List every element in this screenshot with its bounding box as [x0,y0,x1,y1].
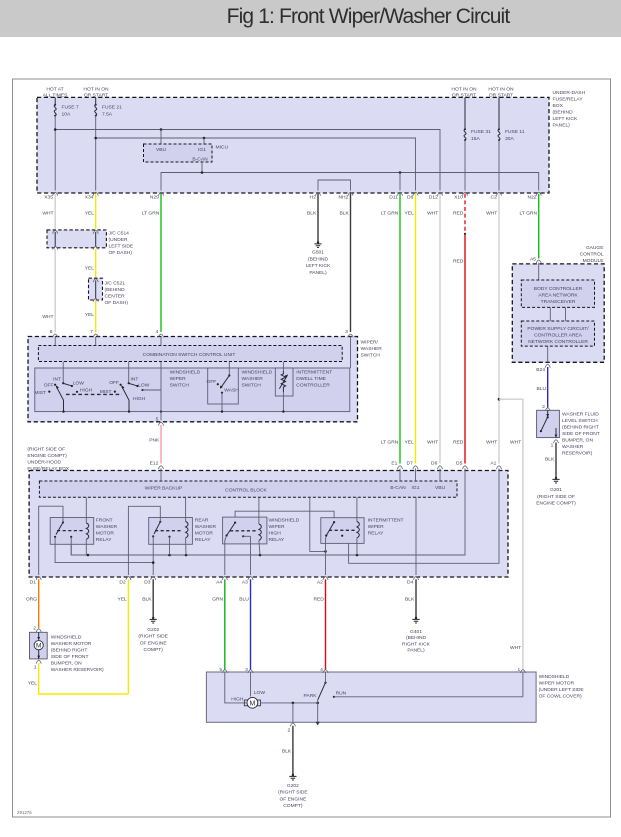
svg-text:BLK: BLK [545,457,555,463]
svg-text:D6: D6 [431,461,438,467]
windshield washer motor [30,632,105,673]
svg-text:FUSE/RELAY: FUSE/RELAY [553,97,584,103]
svg-text:OR START: OR START [489,93,513,99]
svg-text:CONTROL: CONTROL [580,252,604,258]
svg-text:BUMPER, ON: BUMPER, ON [51,660,82,666]
svg-text:7.5A: 7.5A [102,112,113,118]
svg-text:WHT: WHT [42,211,53,217]
pin D5 [456,461,468,469]
wire fuse 31 output to X10 [464,140,466,190]
pin 1 washer fluid level switch [551,440,559,449]
svg-text:RELAY: RELAY [96,537,112,543]
svg-text:30A: 30A [505,136,514,142]
wire BLK D3 to G202 [142,579,153,617]
svg-text:D7: D7 [407,461,414,467]
node junction fuse21 bus [94,137,97,140]
svg-text:D6: D6 [407,195,414,201]
wire WASH contact to bus [221,393,223,412]
svg-text:YEL: YEL [405,211,415,217]
svg-text:COMBINATION SWITCH CONTROL UNI: COMBINATION SWITCH CONTROL UNIT [143,352,236,358]
pin C2 [491,192,502,200]
switch block box [35,368,350,412]
pin D6 [431,461,443,469]
wire transceiver to controller links [550,307,565,321]
wire GRN A4 to wiper motor pin 5 [212,579,225,670]
svg-text:IG1: IG1 [412,485,420,491]
front washer motor relay [50,518,117,545]
svg-text:COMPT): COMPT) [283,803,303,809]
ground G501 [306,241,331,276]
wire control block to A2 branch [310,497,326,551]
svg-text:X10: X10 [454,195,463,201]
pin D4 [407,577,419,586]
windshield washer switch box [208,368,239,404]
MICU [144,144,229,163]
svg-text:M: M [249,701,255,708]
power supply circuit/controller area network controller [521,321,594,346]
wire pin 4 feed [160,337,162,346]
pin 3 wiper motor [245,667,253,673]
wiper switch wafer 2 [100,377,150,412]
svg-text:WASHER RESERVOIR): WASHER RESERVOIR) [51,667,104,673]
pin B24 [536,364,550,373]
svg-text:MOTOR: MOTOR [96,531,115,537]
svg-text:WHT: WHT [486,440,497,446]
pin A5 [530,257,541,264]
pin A1 [490,461,501,469]
wire park contact riser [317,700,319,703]
svg-text:HOT IN ON: HOT IN ON [83,87,109,93]
svg-text:G501: G501 [312,250,324,256]
wire control block to front relay coil [85,497,87,523]
pin 1 washer motor [34,660,42,670]
svg-text:RUN: RUN [336,691,347,697]
svg-text:OF DASH): OF DASH) [109,250,133,256]
svg-text:HIGH: HIGH [231,696,244,702]
svg-text:(UNDER: (UNDER [109,237,128,243]
wire control unit to washer switch [228,362,230,376]
svg-text:ORG: ORG [26,597,37,603]
wire BLK D4 to G401 [405,579,416,617]
svg-text:2: 2 [542,404,545,410]
svg-text:1: 1 [517,667,520,673]
svg-text:WHT: WHT [427,211,438,217]
svg-text:PARK: PARK [304,693,318,699]
svg-text:B-CAN: B-CAN [192,157,208,163]
intermittent dwell time controller box [275,368,293,396]
wire E1 into control block [399,469,401,482]
ground G201 [536,477,576,507]
svg-text:A2: A2 [317,580,323,586]
pin A3 [242,577,253,586]
pin D2 [119,577,131,586]
svg-text:HOT IN ON: HOT IN ON [488,87,514,93]
node junction int coil bus [356,554,359,557]
pin A2 [317,577,328,586]
node junction fuse7 bus [54,128,57,131]
ground G202 left [138,617,168,653]
svg-text:HOT AT: HOT AT [46,87,63,93]
svg-text:N22: N22 [528,195,537,201]
under-hood fuse/relay box [27,447,508,578]
wire battery bus to D12 [55,130,440,191]
wire LT GRN N22 to A5 [520,194,539,259]
pin NH2 [339,192,354,200]
svg-text:BLK: BLK [405,597,415,603]
svg-text:X35: X35 [44,195,53,201]
wire high coil to bus [259,540,260,555]
svg-text:WHT: WHT [427,440,438,446]
svg-text:WINDSHIELD: WINDSHIELD [539,674,570,680]
svg-text:M: M [36,643,41,650]
svg-text:WIPER/: WIPER/ [361,340,379,346]
svg-text:HOT IN ON: HOT IN ON [451,87,477,93]
svg-text:COMPT): COMPT) [144,647,164,653]
pin 2 washer motor [33,626,41,633]
svg-text:WASHER: WASHER [195,524,217,530]
svg-text:(BEHIND: (BEHIND [105,287,126,293]
svg-text:D3: D3 [144,580,151,586]
svg-text:RED: RED [313,597,324,603]
wire D11 drop [399,173,401,191]
wire int coil to bus [356,538,358,555]
svg-text:RELAY: RELAY [368,531,384,537]
wire pin 5 to motor HIGH brush [225,672,247,703]
wire BLK NH2 to pin 3 [340,194,351,332]
svg-text:WASHER FLUID: WASHER FLUID [562,412,599,418]
park switch arm [304,672,327,700]
fuse FUSE 11 30A [498,97,525,142]
svg-text:UNDER-HOOD: UNDER-HOOD [27,460,61,466]
svg-text:E12: E12 [150,461,159,467]
wiper/washer switch assembly box [28,337,382,422]
wire D6 into control block [439,469,441,482]
svg-text:FRONT: FRONT [96,518,113,524]
svg-text:WASHER: WASHER [96,524,118,530]
svg-text:A5: A5 [530,257,536,263]
svg-text:BODY CONTROLLER: BODY CONTROLLER [534,286,583,292]
svg-text:SWITCH: SWITCH [242,383,262,389]
svg-text:WINDSHIELD: WINDSHIELD [269,518,300,524]
wire wafer2 HIGH contact to pin 5 line [143,389,162,391]
svg-text:OF DASH): OF DASH) [105,300,129,306]
svg-text:G401: G401 [410,629,422,635]
junction connector J/C C514 [47,230,134,256]
svg-text:N29: N29 [150,195,159,201]
pin X35 [44,192,58,200]
node junctions on switch bus [62,410,284,412]
svg-text:LT GRN: LT GRN [520,211,538,217]
svg-text:CONTROLLER AREA: CONTROLLER AREA [534,333,583,339]
node junction front coil bus [87,554,90,557]
wire controller to B24 [547,346,549,362]
wire front top contact to D1 [39,506,63,575]
svg-text:SIDE OF FRONT: SIDE OF FRONT [51,654,89,660]
svg-text:D5: D5 [456,461,463,467]
windshield washer switch [207,374,240,393]
wire pin 4 through to pin 5 [160,362,162,421]
svg-text:OFF: OFF [44,383,54,389]
svg-text:2: 2 [33,626,36,632]
wire ORG D1 to washer motor [26,579,39,628]
rear washer motor relay [149,518,217,545]
svg-text:INT: INT [53,377,61,383]
node junction rear NO bus [168,554,171,557]
wire BLK H2 to G501 [307,194,318,242]
gauge control module [512,245,604,362]
fuse FUSE 7 10A [54,97,79,117]
control block [39,481,457,497]
wire LT GRN D11 to E1 [381,194,400,464]
wire front arm to D3 rail [55,537,153,563]
svg-text:C2: C2 [491,195,498,201]
svg-text:POWER SUPPLY CIRCUIT/: POWER SUPPLY CIRCUIT/ [527,326,589,332]
svg-text:A1: A1 [490,461,496,467]
pin 5 wiper motor [219,667,227,673]
svg-text:8: 8 [50,329,53,335]
svg-text:WIPER BACKUP: WIPER BACKUP [145,485,183,491]
wire rear top contact to D2 [128,506,160,575]
svg-text:RED: RED [453,259,464,265]
mechanical link dashed [66,393,122,395]
svg-text:RIGHT KICK: RIGHT KICK [402,642,431,648]
wire D7 into control block [415,469,417,482]
pin X34 [85,192,99,200]
svg-text:WHT: WHT [510,645,521,651]
svg-text:J/C C521: J/C C521 [105,281,126,287]
pin D3 [144,577,156,586]
node junction pin 2 [292,702,295,705]
svg-text:ENGINE COMPT): ENGINE COMPT) [536,501,576,507]
svg-text:H2: H2 [310,195,317,201]
wire pin 3 to motor LOW brush [250,672,252,697]
wire VBU feed [160,130,162,145]
svg-text:B-CAN: B-CAN [390,485,406,491]
wire int relay arm to A2 [325,536,327,575]
wire A1 to intermittent NO contact [342,469,499,564]
svg-text:LEVEL SWITCH: LEVEL SWITCH [562,418,598,424]
svg-text:WASH: WASH [224,388,239,394]
svg-text:WINDSHIELD: WINDSHIELD [51,634,82,640]
pin N22 [528,192,542,200]
svg-text:YEL: YEL [28,681,38,687]
wire YEL D2 down [117,579,128,694]
intermittent wiper relay [321,518,404,544]
wire front NO contact to bus [70,537,72,555]
node junction D3 [152,561,155,564]
svg-text:FUSE 7: FUSE 7 [62,105,79,111]
svg-text:J/C C514: J/C C514 [109,231,130,237]
svg-text:4: 4 [156,329,159,335]
svg-text:AREA NETWORK: AREA NETWORK [538,293,578,299]
svg-text:10A: 10A [62,112,71,118]
svg-text:(BEHIND: (BEHIND [308,256,329,262]
node junction B-CAN [201,171,204,174]
wire pin 3 to switch block [350,337,352,369]
svg-text:WASHER: WASHER [562,444,584,450]
svg-text:TRANSCEIVER: TRANSCEIVER [541,299,576,305]
washer fluid level switch [537,410,600,456]
wire WHT C514 to pin 8 [42,249,55,332]
svg-text:WASHER MOTOR: WASHER MOTOR [51,641,92,647]
svg-text:RED: RED [453,440,464,446]
wire B-CAN bus N29 to N22 [161,173,539,191]
wire high relay arm to A4 [225,536,227,575]
wire control unit to wiper wafer 1 [62,362,64,383]
pin 2 wiper motor [287,723,295,734]
svg-text:BLK: BLK [142,597,152,603]
node junction VBU [160,128,163,131]
pin D6 top [407,192,418,200]
wiper motor M [231,690,265,708]
svg-text:NH2: NH2 [339,195,349,201]
svg-text:BLK: BLK [282,749,292,755]
pin 5 [156,417,164,426]
svg-text:(RIGHT SIDE OF: (RIGHT SIDE OF [537,494,575,500]
svg-text:5: 5 [156,417,159,423]
svg-text:(RIGHT SIDE OF: (RIGHT SIDE OF [27,447,65,453]
wire LT GRN N29 to pin 4 [142,194,161,332]
wire YEL C521 to pin 7 [85,301,96,332]
wire fuse 7 output to X35 [54,116,56,191]
node HOT IN ON OR START (fuse 11) [488,87,514,99]
wire WHT through C514 [53,230,58,249]
pin E12 [150,461,164,469]
node junction A2 branch [324,550,327,553]
variable resistor dwell [279,371,288,392]
svg-text:D12: D12 [429,195,438,201]
wire BLU A3 to wiper motor pin 3 [239,579,250,670]
svg-text:LT GRN: LT GRN [142,211,160,217]
fuse FUSE 31 15A [464,97,491,142]
ground G401 [402,617,431,654]
svg-text:(RIGHT SIDE: (RIGHT SIDE [138,634,168,640]
pin 1 wiper motor [517,667,525,673]
svg-text:OF ENGINE: OF ENGINE [140,640,168,646]
wire ignition bus to D6 [96,138,416,191]
wire control unit to dwell controller [282,362,284,372]
svg-text:INTERMITTENT: INTERMITTENT [296,370,332,376]
pin E1 [391,461,402,469]
svg-text:BUMPER, ON: BUMPER, ON [562,438,593,444]
wire dwell controller to bus [282,392,284,412]
pin A4 [216,577,227,586]
svg-text:YEL: YEL [85,312,95,318]
svg-text:X34: X34 [85,195,94,201]
node junction high coil bus [259,554,262,557]
node HOT IN ON OR START (fuse 31) [451,87,477,99]
svg-text:VBU: VBU [435,485,446,491]
svg-text:LEFT KICK: LEFT KICK [553,116,578,122]
wire YEL through C514 [93,230,98,249]
svg-text:CONTROLLER: CONTROLLER [296,383,330,389]
node junction D11 [399,171,402,174]
wire top contact bridge high-int relays [235,511,334,522]
wire WHT C2 to A1 [486,194,499,464]
svg-text:NETWORK CONTROLLER: NETWORK CONTROLLER [528,339,588,345]
pin 7 [90,329,98,337]
svg-text:YEL: YEL [405,440,415,446]
wire rear coil to bus [185,538,187,555]
svg-text:E1: E1 [391,461,397,467]
svg-text:WIPER MOTOR: WIPER MOTOR [539,681,575,687]
svg-text:RELAY: RELAY [195,537,211,543]
svg-text:REAR: REAR [195,518,209,524]
svg-text:Fig 1: Front Wiper/Washer Circ: Fig 1: Front Wiper/Washer Circuit [227,5,511,28]
wire high NO contact to A3 [250,536,252,575]
svg-text:3: 3 [345,329,348,335]
svg-text:BLU: BLU [536,386,546,392]
svg-text:OF ENGINE: OF ENGINE [279,796,307,802]
wire motor common to park [261,702,318,704]
svg-text:PANEL): PANEL) [309,270,327,276]
relay coil bus (D5) [71,469,465,556]
wire fuse 11 output to C2 [498,140,500,190]
wire YEL washer motor to D2 [28,663,129,694]
svg-text:HIGH: HIGH [80,387,93,393]
under-dash fuse/relay box [37,90,586,193]
wire control block to rear relay coil [185,497,187,521]
svg-text:HIGH: HIGH [133,396,146,402]
svg-text:B24: B24 [536,367,545,373]
svg-text:5: 5 [219,667,222,673]
svg-text:OFF: OFF [109,380,119,386]
node HOT AT ALL TIMES [43,87,68,99]
svg-text:FUSE 21: FUSE 21 [102,105,122,111]
svg-text:G201: G201 [550,487,562,493]
svg-text:WHT: WHT [42,314,53,320]
svg-text:HIGH: HIGH [269,531,282,537]
svg-text:(BEHIND: (BEHIND [406,635,427,641]
pin 2 washer fluid level switch [542,404,550,411]
svg-text:CENTER: CENTER [105,294,126,300]
fuse FUSE 21 7.5A [95,97,122,117]
svg-text:YEL: YEL [117,597,127,603]
svg-text:WINDSHIELD: WINDSHIELD [170,370,201,376]
svg-text:YEL: YEL [85,211,95,217]
wire pin 2 drop [292,703,294,722]
svg-text:WASHER: WASHER [242,376,264,382]
svg-text:OF COWL COVER): OF COWL COVER) [539,694,582,700]
svg-text:UNDER-DASH: UNDER-DASH [553,90,586,96]
svg-text:WIPER: WIPER [170,376,186,382]
svg-text:IG1: IG1 [198,147,206,153]
svg-text:15A: 15A [471,136,480,142]
pin N29 [150,192,164,200]
svg-text:(BEHIND: (BEHIND [553,110,574,116]
svg-text:WHT: WHT [486,211,497,217]
pin D1 [30,577,42,586]
svg-text:INT: INT [131,377,139,383]
wire BLK pin 2 to G202 [282,726,293,774]
svg-text:BLK: BLK [340,211,350,217]
wire rear arm to D3 [152,536,154,575]
svg-text:YEL: YEL [85,266,95,272]
wire WHT D12 to D6 [427,194,440,464]
svg-text:LEFT KICK: LEFT KICK [306,263,331,269]
internal ground arrow wiper motor [316,703,320,726]
pin 8 [50,329,58,337]
label windshield wiper switch [170,370,201,389]
svg-text:INTERMITTENT: INTERMITTENT [368,518,404,524]
run contact [333,691,523,698]
pin D12 [429,192,443,200]
node junction park ground [316,702,319,705]
svg-text:MODULE: MODULE [583,258,605,264]
svg-text:RESERVOIR): RESERVOIR) [562,451,593,457]
wire pin 8 feed [54,337,56,346]
svg-text:FUSE 11: FUSE 11 [505,129,525,135]
